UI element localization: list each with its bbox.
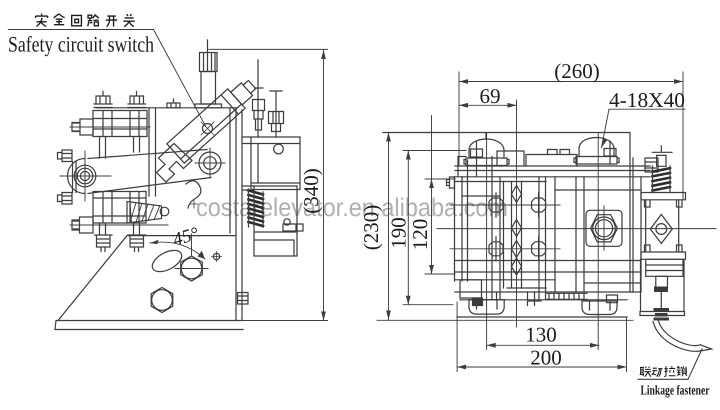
label leader line — [8, 30, 205, 127]
svg-text:69: 69 — [479, 84, 500, 108]
diamond — [650, 215, 672, 244]
dome centerline right — [597, 133, 599, 350]
char la — [664, 366, 675, 376]
middle box — [254, 186, 297, 256]
switch circle — [203, 124, 213, 134]
rail top line — [383, 133, 630, 159]
top mid plate — [526, 150, 577, 167]
svg-text:Safety circuit switch: Safety circuit switch — [8, 32, 154, 57]
dim 120 — [425, 116, 455, 275]
main horizontal centerline — [437, 228, 716, 230]
hex bolt 3 — [532, 193, 546, 217]
dim 130 — [487, 344, 599, 346]
hex bolt row centerlines — [450, 205, 560, 249]
floor line — [377, 319, 633, 321]
bolt B1 head — [94, 92, 112, 108]
svg-text:4-18X40: 4-18X40 — [609, 88, 685, 112]
bolt shafts below block — [100, 137, 140, 159]
left foot — [469, 300, 504, 315]
cylinder base flange — [195, 104, 222, 108]
dim 200 — [457, 302, 626, 372]
left edge small bolt lower — [58, 193, 73, 205]
svg-text:Linkage fastener: Linkage fastener — [640, 383, 709, 398]
dim 190 — [403, 151, 466, 305]
bottom bracket — [646, 259, 683, 276]
dome centerline left — [486, 133, 488, 350]
lever end rings — [74, 165, 96, 187]
base trapezoid plate — [58, 236, 236, 321]
left edge small bolt upper — [58, 150, 73, 162]
middle bottom verticals — [497, 292, 542, 306]
right bracket — [242, 137, 300, 190]
dome bolt left — [471, 141, 483, 176]
lower hex hole — [151, 288, 173, 313]
main body verticals — [455, 158, 642, 300]
CJK label lian dong la suo — [640, 366, 687, 377]
frame verticals — [646, 200, 679, 252]
top small plate — [652, 146, 672, 166]
main body horizontals — [455, 182, 641, 318]
left edge side bolt — [447, 177, 455, 188]
plunger — [656, 276, 668, 309]
char lian — [640, 366, 651, 376]
right edge small bolt — [238, 293, 249, 305]
45 deg arc — [150, 242, 205, 259]
hex bolt 2 — [489, 237, 503, 261]
hex bolt 1 — [489, 193, 503, 217]
top-left bolt block — [93, 111, 147, 137]
svg-text:(260): (260) — [554, 59, 600, 83]
char guan — [123, 14, 134, 27]
svg-text:130: 130 — [525, 322, 557, 346]
svg-text:200: 200 — [530, 345, 562, 369]
char lu — [88, 14, 99, 26]
CJK label an quan hui lu kai guan — [36, 13, 135, 26]
lower bolt shafts — [100, 223, 140, 235]
hex bolt 4 — [532, 237, 546, 261]
right dome base — [574, 157, 619, 165]
right foot — [582, 301, 617, 315]
pivot bolt — [199, 152, 221, 174]
upper hex hole — [181, 256, 203, 281]
cone spring hatched — [127, 202, 162, 224]
diamond chain — [512, 186, 522, 276]
char dong — [652, 368, 662, 377]
left bottom bracket — [460, 280, 482, 298]
svg-text:(230): (230) — [359, 205, 383, 251]
char kai — [106, 16, 117, 27]
char an — [36, 13, 48, 26]
left dome base — [464, 158, 509, 166]
bottom frame — [640, 259, 685, 315]
lower-left bolt block — [93, 192, 146, 224]
small circle cross — [213, 253, 219, 259]
dim (260) — [459, 72, 683, 199]
left horizontal bolt lower — [72, 217, 93, 233]
centerline lower bolt — [70, 224, 168, 226]
serrated strip — [546, 293, 587, 299]
main plate — [96, 108, 242, 321]
lower nut N2 — [128, 235, 146, 252]
svg-text:costarelevator.en.alibaba.com: costarelevator.en.alibaba.com — [196, 194, 508, 222]
leader 4-18X40 — [602, 109, 686, 147]
thin rod — [253, 60, 265, 137]
linkage label leader — [638, 349, 702, 379]
big hex bolt — [591, 215, 618, 242]
right foot bolt — [607, 295, 618, 303]
svg-text:190: 190 — [387, 217, 411, 249]
bracket pin — [283, 224, 303, 231]
char quan — [54, 14, 65, 25]
svg-text:120: 120 — [408, 219, 432, 251]
cam oval — [149, 246, 185, 276]
svg-text:(340): (340) — [299, 168, 323, 214]
base strip — [55, 321, 243, 330]
threaded collar — [654, 308, 670, 321]
lower nut N1 — [95, 235, 113, 252]
dim (230) — [388, 133, 390, 320]
lever end crosshair — [60, 151, 111, 201]
bracket adjuster rod — [269, 91, 284, 137]
dim 69 — [459, 104, 517, 106]
plunger nut — [654, 287, 668, 293]
middle dark coil spring — [249, 191, 264, 227]
cylinder body — [201, 40, 216, 104]
dome bolt right — [604, 141, 616, 164]
bolt B2 head — [128, 92, 146, 108]
big hex block — [586, 210, 622, 246]
top right small bolt — [645, 158, 658, 172]
coil spring — [653, 168, 671, 190]
dim (340) line — [209, 49, 328, 320]
bolt B3 small — [167, 99, 180, 108]
centerline upper bolt — [70, 126, 150, 128]
angled switch body — [167, 75, 261, 163]
question wire — [186, 181, 201, 208]
cam follower blob — [157, 144, 193, 183]
top flange — [641, 193, 686, 208]
char suo — [677, 366, 687, 376]
bottom flange — [641, 245, 686, 259]
cable tube — [653, 321, 712, 351]
left edge plate lines — [73, 162, 77, 193]
char hui — [72, 15, 82, 25]
left dome — [469, 139, 504, 158]
top plates — [455, 151, 650, 177]
cylinder cap — [200, 53, 218, 72]
right dome — [579, 138, 614, 157]
lever arm — [68, 150, 212, 194]
left horizontal bolt upper — [72, 119, 93, 135]
